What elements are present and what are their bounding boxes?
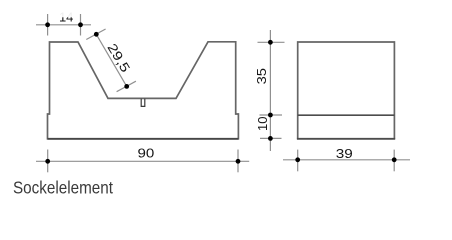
svg-text:39: 39: [336, 146, 353, 161]
svg-text:35: 35: [254, 68, 269, 84]
svg-text:29,5: 29,5: [104, 41, 133, 75]
svg-text:10: 10: [255, 117, 270, 132]
svg-text:Sockelelement: Sockelelement: [13, 177, 113, 197]
svg-text:90: 90: [138, 146, 155, 161]
